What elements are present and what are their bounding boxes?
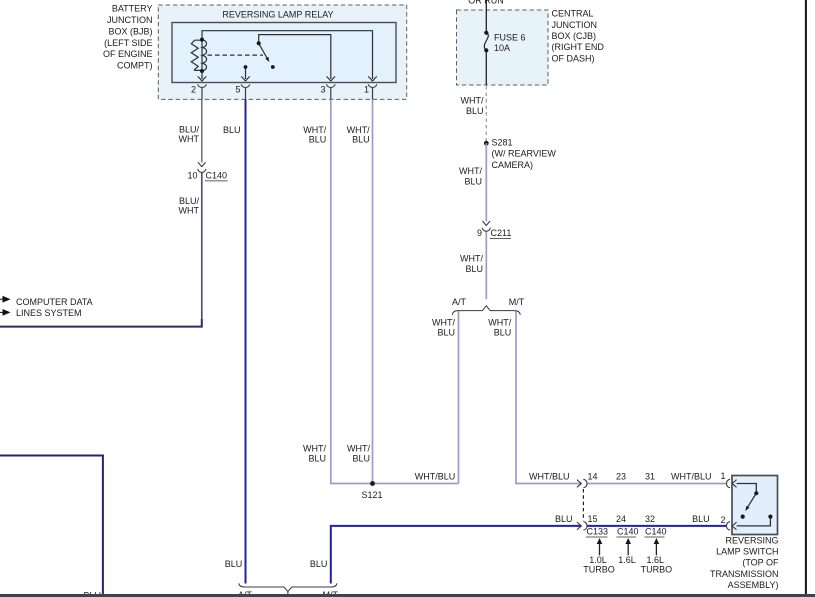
svg-text:BLU: BLU: [223, 125, 241, 135]
svg-text:WHT/: WHT/: [488, 318, 511, 328]
svg-text:WHT/: WHT/: [460, 254, 483, 264]
svg-text:TURBO: TURBO: [641, 565, 673, 575]
svg-text:REVERSING: REVERSING: [725, 535, 778, 545]
svg-text:TURBO: TURBO: [583, 565, 615, 575]
svg-text:BLU/: BLU/: [179, 196, 200, 206]
svg-text:1: 1: [364, 85, 369, 95]
svg-text:S281: S281: [492, 137, 513, 147]
svg-text:(RIGHT END: (RIGHT END: [552, 42, 605, 52]
svg-text:23: 23: [616, 472, 626, 482]
svg-text:WHT/: WHT/: [461, 96, 484, 106]
svg-text:M/T: M/T: [509, 297, 525, 307]
svg-text:BLU/: BLU/: [179, 125, 200, 135]
svg-text:C133: C133: [587, 527, 609, 537]
svg-text:JUNCTION: JUNCTION: [552, 20, 598, 30]
svg-text:BLU: BLU: [466, 106, 484, 116]
svg-text:WHT/: WHT/: [347, 125, 370, 135]
svg-text:OF ENGINE: OF ENGINE: [103, 49, 153, 59]
svg-text:5: 5: [235, 85, 240, 95]
svg-text:1: 1: [721, 471, 726, 481]
svg-text:WHT/: WHT/: [432, 318, 455, 328]
svg-text:14: 14: [588, 472, 598, 482]
svg-text:C140: C140: [206, 170, 228, 180]
svg-text:WHT: WHT: [179, 134, 200, 144]
svg-text:31: 31: [645, 472, 655, 482]
svg-text:2: 2: [721, 515, 726, 525]
svg-text:TRANSMISSION: TRANSMISSION: [710, 569, 779, 579]
svg-text:WHT/: WHT/: [347, 444, 370, 454]
svg-text:BLU: BLU: [494, 328, 512, 338]
svg-text:BLU: BLU: [555, 514, 573, 524]
svg-text:FUSE 6: FUSE 6: [494, 33, 526, 43]
svg-text:(TOP OF: (TOP OF: [742, 558, 779, 568]
svg-text:WHT/: WHT/: [303, 125, 326, 135]
svg-text:(W/ REARVIEW: (W/ REARVIEW: [492, 149, 557, 159]
svg-text:CENTRAL: CENTRAL: [552, 9, 594, 19]
svg-text:BLU: BLU: [309, 135, 327, 145]
svg-text:1.0L: 1.0L: [589, 555, 607, 565]
svg-text:BLU: BLU: [310, 559, 328, 569]
svg-text:BLU: BLU: [692, 514, 710, 524]
svg-text:ASSEMBLY): ASSEMBLY): [728, 580, 779, 590]
svg-text:WHT/: WHT/: [459, 166, 482, 176]
svg-text:BATTERY: BATTERY: [112, 4, 153, 14]
svg-text:S121: S121: [361, 490, 382, 500]
svg-text:10: 10: [187, 170, 197, 180]
svg-text:BLU: BLU: [352, 135, 370, 145]
svg-text:15: 15: [588, 514, 598, 524]
svg-text:BOX (BJB): BOX (BJB): [108, 26, 152, 36]
svg-text:2: 2: [191, 85, 196, 95]
svg-text:COMPUTER DATA: COMPUTER DATA: [16, 297, 93, 307]
svg-text:32: 32: [645, 514, 655, 524]
svg-text:9: 9: [477, 228, 482, 238]
svg-text:C140: C140: [645, 527, 667, 537]
svg-text:10A: 10A: [494, 43, 510, 53]
svg-text:BLU: BLU: [464, 177, 482, 187]
svg-text:BLU: BLU: [352, 454, 370, 464]
svg-text:REVERSING LAMP RELAY: REVERSING LAMP RELAY: [222, 9, 333, 19]
svg-text:LINES SYSTEM: LINES SYSTEM: [16, 308, 82, 318]
svg-text:C211: C211: [491, 228, 512, 238]
svg-text:BLU: BLU: [465, 264, 483, 274]
svg-text:BOX (CJB): BOX (CJB): [552, 31, 597, 41]
svg-text:BLU: BLU: [437, 328, 455, 338]
svg-text:CAMERA): CAMERA): [492, 160, 534, 170]
svg-text:WHT/BLU: WHT/BLU: [415, 472, 456, 482]
svg-text:BLU: BLU: [308, 454, 326, 464]
svg-text:1.6L: 1.6L: [618, 555, 636, 565]
svg-text:WHT/BLU: WHT/BLU: [671, 472, 712, 482]
svg-text:COMPT): COMPT): [117, 61, 153, 71]
svg-text:OF DASH): OF DASH): [552, 53, 595, 63]
svg-text:1.6L: 1.6L: [647, 555, 665, 565]
svg-text:BLU: BLU: [225, 559, 243, 569]
svg-text:A/T: A/T: [452, 297, 467, 307]
svg-text:3: 3: [320, 85, 325, 95]
svg-text:C140: C140: [617, 527, 639, 537]
svg-text:WHT: WHT: [179, 206, 200, 216]
svg-text:(LEFT SIDE: (LEFT SIDE: [104, 38, 152, 48]
svg-text:WHT/: WHT/: [303, 444, 326, 454]
svg-text:WHT/BLU: WHT/BLU: [529, 472, 570, 482]
svg-text:JUNCTION: JUNCTION: [107, 15, 153, 25]
svg-text:LAMP SWITCH: LAMP SWITCH: [716, 547, 778, 557]
svg-text:24: 24: [616, 514, 626, 524]
